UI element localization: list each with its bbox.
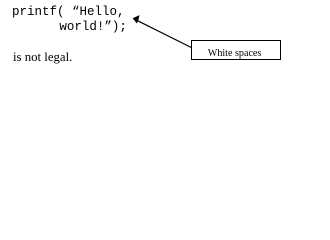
code line 2 [59, 21, 127, 34]
callout box: White spaces [191, 40, 280, 60]
callout arrow [0, 0, 330, 75]
code line 1 [12, 6, 125, 19]
caption: is not legal. [13, 51, 72, 64]
